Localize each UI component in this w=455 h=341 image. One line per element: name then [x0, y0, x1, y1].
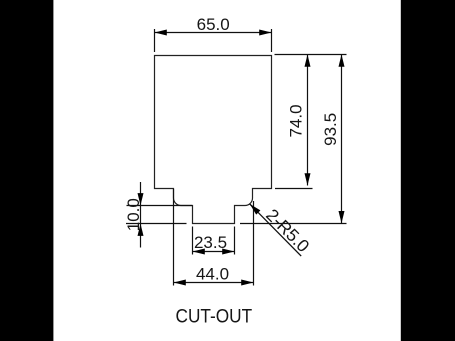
- arrow 74.0 up: [305, 55, 311, 67]
- dim 44.0 right extension line: [253, 201, 255, 286]
- leader line 2-R5.0: [250, 204, 302, 256]
- svg-text:74.0: 74.0: [287, 104, 306, 137]
- arrow 44.0 right: [241, 280, 253, 286]
- dim 93.5 dimension line: [341, 55, 343, 224]
- dim 74.0/93.5 top extension line: [275, 54, 347, 56]
- svg-text:65.0: 65.0: [197, 15, 230, 34]
- arrow 93.5 up: [339, 55, 345, 67]
- arrow leader 2-R5.0 (points up-left at fillet): [250, 204, 261, 215]
- svg-text:23.5: 23.5: [194, 233, 227, 252]
- svg-text:10.0: 10.0: [124, 198, 143, 231]
- dim 10.0 bottom extension line: [126, 223, 187, 225]
- dim 65.0 left extension line: [154, 29, 156, 52]
- dim 74.0 dimension line: [307, 55, 309, 186]
- dim 23.5 right extension line: [234, 227, 236, 255]
- left black pillar: [0, 0, 53, 341]
- dim 93.5 bottom extension line: [240, 223, 347, 225]
- dim 23.5 dimension line: [193, 251, 235, 253]
- arrow 10.0 up (outside, points up to y=223.9): [138, 224, 144, 236]
- arrow 65.0 right: [259, 30, 271, 36]
- right black pillar: [401, 0, 455, 341]
- arrow 10.0 down (outside, points down to y=205.9): [138, 193, 144, 205]
- arrow 65.0 left: [155, 30, 167, 36]
- svg-text:44.0: 44.0: [196, 265, 229, 284]
- arrow 74.0 down: [305, 173, 311, 185]
- dim 10.0 dimension line: [140, 182, 142, 248]
- dim 10.0 top extension line: [127, 205, 193, 207]
- arrow 44.0 left: [174, 280, 186, 286]
- dim 44.0 left extension line: [173, 189, 175, 286]
- dim 65.0 right extension line: [271, 29, 273, 52]
- dim 74.0 bottom extension line: [275, 188, 313, 190]
- cut-out outline: [155, 56, 272, 224]
- dim 23.5 left extension line: [192, 227, 194, 255]
- arrow 23.5 right: [222, 249, 234, 255]
- arrow 23.5 left: [193, 249, 205, 255]
- dim 44.0 dimension line: [174, 282, 254, 284]
- dim 65.0 dimension line: [155, 32, 272, 34]
- svg-text:93.5: 93.5: [321, 113, 340, 146]
- arrow 93.5 down: [339, 211, 345, 223]
- svg-text:CUT-OUT: CUT-OUT: [176, 306, 253, 327]
